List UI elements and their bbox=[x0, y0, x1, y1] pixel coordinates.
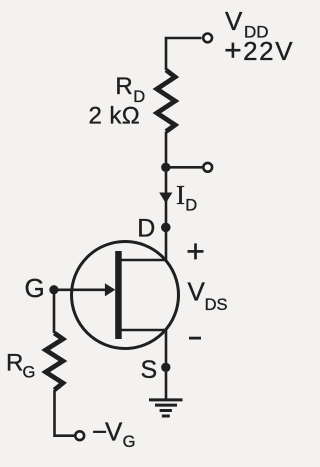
wire drain vertical bbox=[165, 132, 168, 261]
node dot G bbox=[49, 285, 58, 294]
current arrow ID bbox=[159, 193, 172, 204]
svg-text:R: R bbox=[115, 73, 132, 100]
svg-text:G: G bbox=[123, 433, 136, 451]
terminal -VG bbox=[75, 431, 84, 440]
svg-text:S: S bbox=[141, 356, 158, 384]
svg-text:D: D bbox=[137, 215, 155, 243]
svg-text:G: G bbox=[23, 364, 36, 382]
transistor Q1 circle bbox=[72, 242, 179, 349]
svg-text:V: V bbox=[188, 277, 206, 307]
resistor RG bbox=[46, 333, 63, 390]
wire VDD top corner bbox=[166, 38, 202, 70]
transistor channel bar bbox=[115, 251, 122, 339]
node dot S bbox=[161, 363, 170, 372]
svg-text:R: R bbox=[6, 350, 23, 377]
svg-text:−V: −V bbox=[92, 417, 123, 447]
svg-text:G: G bbox=[25, 273, 45, 303]
terminal VDD bbox=[203, 34, 212, 43]
drain internal lead bbox=[121, 259, 166, 262]
label plus bbox=[188, 243, 204, 259]
gate arrowhead bbox=[105, 283, 115, 296]
label +22V bbox=[225, 43, 240, 58]
ground bbox=[149, 400, 183, 416]
svg-text:V: V bbox=[225, 6, 243, 36]
svg-text:DS: DS bbox=[205, 296, 228, 314]
wire source to ground bbox=[165, 330, 168, 399]
wire RG to -VG terminal bbox=[55, 390, 76, 436]
svg-text:D: D bbox=[185, 197, 197, 215]
resistor RD bbox=[157, 70, 175, 132]
terminal output bbox=[203, 163, 212, 172]
junction dot node out bbox=[161, 163, 170, 172]
svg-text:2 kΩ: 2 kΩ bbox=[89, 103, 141, 130]
wire to output terminal bbox=[166, 166, 202, 169]
svg-text:I: I bbox=[176, 180, 185, 210]
label minus bbox=[189, 337, 201, 340]
svg-text:22V: 22V bbox=[243, 36, 294, 66]
gate wire bbox=[54, 288, 107, 291]
wire gate to RG bbox=[53, 290, 56, 333]
source internal lead bbox=[121, 329, 166, 332]
node dot D bbox=[161, 223, 171, 233]
